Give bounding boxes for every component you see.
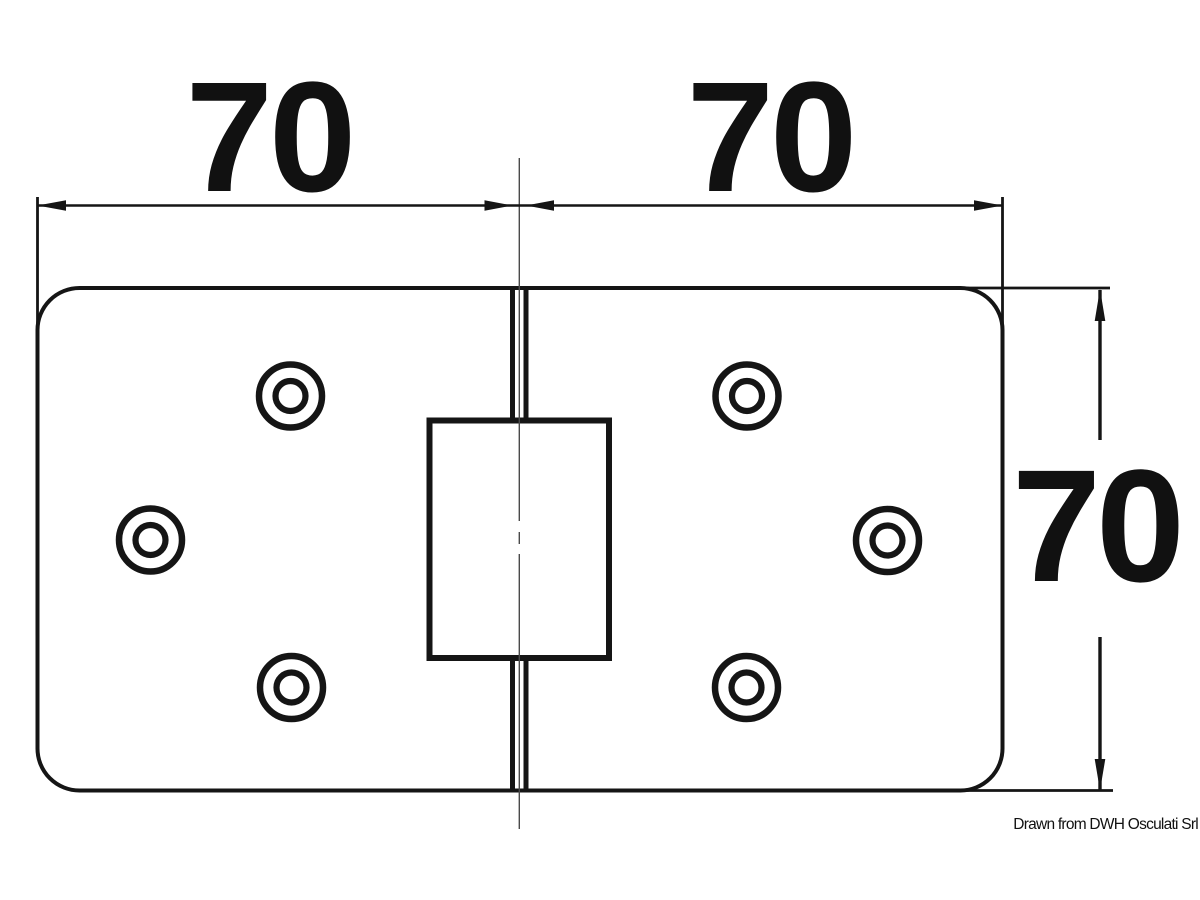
- screw hole middle-left: [119, 509, 182, 572]
- hinge pin left edge line (upper segment): [510, 288, 515, 420]
- arrowhead left outer: [38, 200, 67, 211]
- hinge axis centerline (dash-dot): [518, 158, 520, 829]
- horizontal dimension line: [38, 204, 1003, 207]
- arrowhead center-left: [485, 200, 513, 211]
- hinge knuckle rectangle: [430, 421, 610, 659]
- screw hole top-left: [259, 365, 322, 428]
- arrowhead bottom (right dimension): [1095, 759, 1106, 791]
- dimension label 70 (left leaf): [186, 50, 353, 225]
- extension line bottom (right dimension): [956, 789, 1113, 792]
- svg-text:Drawn from DWH Osculati Srl: Drawn from DWH Osculati Srl: [1013, 816, 1198, 833]
- credit text Drawn from DWH Osculati Srl: [1013, 816, 1198, 833]
- screw hole middle-right: [856, 509, 919, 572]
- vertical dimension line upper segment: [1098, 290, 1101, 440]
- extension line top (right dimension): [956, 287, 1110, 290]
- extension line left (top dimension): [36, 197, 39, 336]
- vertical dimension line lower segment: [1098, 637, 1101, 791]
- screw hole bottom-left: [260, 656, 323, 719]
- arrowhead center-right: [526, 200, 554, 211]
- arrowhead right outer: [974, 200, 1003, 211]
- arrowhead top (right dimension): [1095, 289, 1106, 321]
- screw hole bottom-right: [715, 656, 778, 719]
- extension line right (top dimension): [1001, 197, 1004, 336]
- hinge pin left edge line (lower segment): [510, 658, 515, 791]
- screw hole top-right: [716, 365, 779, 428]
- hinge pin right edge line (upper segment): [524, 288, 529, 420]
- svg-text:70: 70: [186, 50, 353, 225]
- hinge pin right edge line (lower segment): [524, 658, 529, 791]
- dimension label 70 (right leaf): [687, 50, 854, 225]
- dimension label 70 (height): [1012, 436, 1180, 615]
- svg-text:70: 70: [687, 50, 854, 225]
- svg-text:70: 70: [1012, 436, 1180, 615]
- hinge plate outline: [38, 288, 1003, 791]
